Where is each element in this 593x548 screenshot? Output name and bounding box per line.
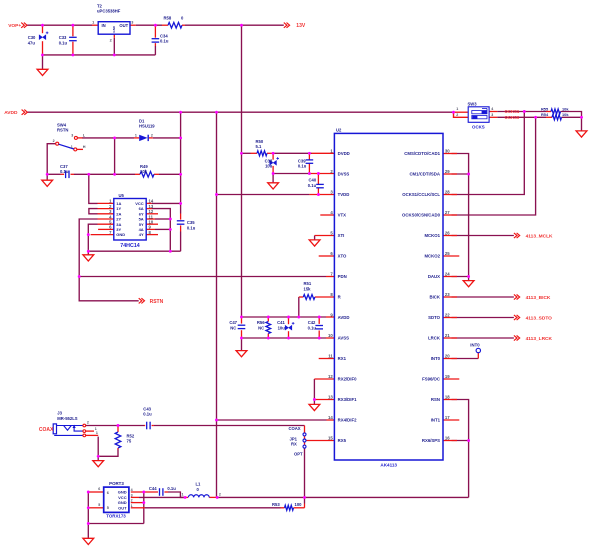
svg-text:26: 26 — [445, 230, 450, 235]
svg-text:COAX: COAX — [289, 426, 301, 431]
svg-text:U2: U2 — [336, 128, 342, 133]
svg-text:OCKS0: OCKS0 — [505, 115, 520, 120]
svg-text:C38: C38 — [265, 158, 273, 163]
svg-text:2: 2 — [110, 39, 112, 43]
svg-text:1: 1 — [95, 427, 97, 431]
svg-text:10k: 10k — [140, 169, 148, 174]
svg-text:INT1: INT1 — [431, 418, 441, 423]
svg-text:47u: 47u — [28, 40, 36, 45]
svg-text:AK4113: AK4113 — [380, 463, 397, 468]
svg-text:IN: IN — [102, 23, 106, 28]
svg-text:28: 28 — [445, 189, 450, 194]
svg-text:C39: C39 — [298, 158, 306, 163]
svg-text:4113_LRCK: 4113_LRCK — [526, 336, 553, 342]
svg-text:4113_BICK: 4113_BICK — [526, 295, 551, 301]
svg-text:22: 22 — [445, 312, 450, 317]
svg-text:RX5: RX5 — [338, 438, 347, 443]
svg-text:0.1u: 0.1u — [308, 183, 317, 188]
svg-text:4113_SDTO: 4113_SDTO — [526, 316, 553, 322]
svg-text:RX2/DIF0: RX2/DIF0 — [338, 377, 357, 382]
svg-text:C40: C40 — [309, 178, 317, 183]
svg-text:0.1u: 0.1u — [60, 169, 69, 174]
svg-text:6: 6 — [107, 491, 109, 495]
svg-text:3: 3 — [131, 20, 133, 24]
svg-text:10: 10 — [328, 333, 333, 338]
svg-text:R58: R58 — [164, 15, 172, 20]
svg-text:4Y: 4Y — [139, 232, 144, 237]
svg-text:AVDD: AVDD — [4, 110, 18, 116]
svg-text:RX1: RX1 — [338, 356, 347, 361]
svg-text:SDTO: SDTO — [428, 315, 441, 320]
svg-text:L: L — [83, 134, 86, 138]
svg-text:20: 20 — [445, 353, 450, 358]
svg-text:10u: 10u — [265, 164, 273, 169]
svg-text:1: 1 — [330, 148, 333, 153]
svg-text:RX: RX — [291, 442, 297, 447]
svg-text:8: 8 — [330, 292, 333, 297]
svg-text:R56: R56 — [257, 320, 265, 325]
svg-text:HSU119: HSU119 — [139, 124, 155, 129]
svg-text:R50: R50 — [256, 139, 264, 144]
svg-text:CMS/CDTO/CAD1: CMS/CDTO/CAD1 — [404, 151, 440, 156]
svg-text:27: 27 — [445, 210, 450, 215]
svg-text:0: 0 — [181, 15, 184, 20]
svg-text:1: 1 — [96, 431, 98, 435]
svg-text:C44: C44 — [149, 486, 157, 491]
svg-text:0.1u: 0.1u — [298, 164, 307, 169]
svg-text:C47: C47 — [229, 320, 237, 325]
svg-text:2: 2 — [53, 139, 55, 143]
svg-text:GND: GND — [118, 490, 127, 495]
svg-text:24: 24 — [445, 271, 450, 276]
svg-text:0.1u: 0.1u — [187, 225, 196, 230]
svg-text:0.1u: 0.1u — [143, 412, 152, 417]
svg-text:15: 15 — [328, 435, 333, 440]
svg-text:TVDD: TVDD — [338, 192, 350, 197]
svg-text:TORX173: TORX173 — [106, 513, 126, 518]
svg-text:BICK: BICK — [429, 295, 440, 300]
svg-text:74HC14: 74HC14 — [120, 243, 139, 249]
svg-text:13V: 13V — [296, 23, 306, 29]
svg-text:DVSS: DVSS — [338, 172, 350, 177]
svg-text:COAX: COAX — [39, 427, 54, 433]
svg-text:2: 2 — [219, 493, 221, 497]
svg-text:XTI: XTI — [338, 233, 345, 238]
svg-text:OCKS0/CSN/CAD0: OCKS0/CSN/CAD0 — [402, 213, 441, 218]
svg-text:18: 18 — [445, 394, 450, 399]
svg-text:R55: R55 — [541, 106, 549, 111]
svg-text:RSTN: RSTN — [150, 299, 164, 305]
svg-text:5.1: 5.1 — [256, 144, 262, 149]
svg-text:PORT3: PORT3 — [109, 481, 124, 486]
svg-text:10k: 10k — [562, 106, 569, 111]
svg-text:15k: 15k — [304, 286, 312, 291]
svg-text:6: 6 — [98, 487, 100, 491]
svg-text:6: 6 — [330, 251, 333, 256]
svg-text:C41: C41 — [277, 320, 285, 325]
svg-text:3: 3 — [131, 494, 133, 498]
svg-text:13: 13 — [328, 394, 333, 399]
svg-text:GND: GND — [116, 232, 125, 237]
svg-text:4: 4 — [491, 107, 493, 111]
svg-text:RX6/SPS: RX6/SPS — [422, 438, 440, 443]
svg-text:5: 5 — [107, 506, 109, 510]
svg-text:OUT: OUT — [119, 23, 128, 28]
svg-text:12: 12 — [328, 374, 333, 379]
svg-text:16: 16 — [445, 435, 450, 440]
svg-text:OCKS: OCKS — [472, 124, 485, 129]
svg-text:1: 1 — [71, 145, 73, 149]
svg-text:NC: NC — [230, 325, 236, 330]
svg-text:4113_MCLK: 4113_MCLK — [526, 234, 553, 240]
svg-text:XTO: XTO — [338, 254, 347, 259]
svg-text:23: 23 — [445, 292, 450, 297]
svg-text:VTX: VTX — [338, 213, 346, 218]
svg-text:OPT: OPT — [294, 452, 303, 457]
svg-text:30: 30 — [445, 148, 450, 153]
svg-text:CM1/CDTI/SDA: CM1/CDTI/SDA — [409, 172, 440, 177]
svg-text:0.1u: 0.1u — [167, 486, 176, 491]
svg-text:25: 25 — [445, 251, 450, 256]
svg-text:21: 21 — [445, 333, 450, 338]
svg-text:5: 5 — [98, 503, 100, 507]
svg-text:4: 4 — [131, 488, 133, 492]
svg-text:RX4/DIF2: RX4/DIF2 — [338, 418, 357, 423]
svg-text:2: 2 — [131, 499, 133, 503]
svg-text:4: 4 — [330, 210, 333, 215]
svg-text:0.1u: 0.1u — [160, 39, 169, 44]
svg-text:LRCK: LRCK — [428, 336, 441, 341]
svg-text:1: 1 — [182, 493, 184, 497]
svg-text:OCKS1/CCLK/SCL: OCKS1/CCLK/SCL — [402, 192, 440, 197]
svg-text:1: 1 — [131, 504, 133, 508]
svg-text:29: 29 — [445, 169, 450, 174]
svg-text:AVDD: AVDD — [338, 315, 350, 320]
svg-text:0.1u: 0.1u — [59, 40, 68, 45]
svg-text:17: 17 — [445, 415, 450, 420]
svg-text:AVSS: AVSS — [338, 336, 350, 341]
svg-text:PDN: PDN — [338, 274, 347, 279]
svg-text:OUT: OUT — [118, 505, 127, 510]
svg-text:VOP+: VOP+ — [8, 23, 21, 29]
svg-text:14: 14 — [328, 415, 333, 420]
svg-text:R54: R54 — [541, 112, 549, 117]
svg-text:DAUX: DAUX — [428, 274, 440, 279]
svg-text:5: 5 — [330, 230, 333, 235]
svg-text:NC: NC — [258, 325, 264, 330]
svg-text:MR-552LS: MR-552LS — [57, 416, 77, 421]
svg-text:1: 1 — [456, 107, 458, 111]
svg-text:SW3: SW3 — [468, 101, 478, 106]
svg-text:C42: C42 — [308, 320, 316, 325]
svg-text:0: 0 — [197, 487, 200, 492]
svg-text:0.1u: 0.1u — [308, 325, 317, 330]
svg-text:75: 75 — [127, 439, 132, 444]
svg-text:19: 19 — [445, 374, 450, 379]
svg-text:INT0: INT0 — [470, 342, 480, 347]
svg-text:1: 1 — [135, 134, 137, 138]
svg-text:10k: 10k — [562, 112, 569, 117]
svg-text:RSN: RSN — [431, 397, 440, 402]
svg-text:3: 3 — [330, 189, 333, 194]
svg-text:MCKO1: MCKO1 — [424, 233, 440, 238]
svg-text:3: 3 — [491, 113, 493, 117]
svg-text:GND: GND — [112, 25, 116, 33]
svg-text:FS96/OC: FS96/OC — [422, 377, 440, 382]
svg-text:2: 2 — [151, 134, 153, 138]
svg-text:MCKO2: MCKO2 — [424, 254, 440, 259]
svg-text:R53: R53 — [272, 502, 280, 507]
svg-text:RSTN: RSTN — [57, 128, 68, 133]
svg-text:3: 3 — [71, 133, 73, 137]
svg-text:OCKS1: OCKS1 — [505, 109, 520, 114]
svg-text:11: 11 — [328, 353, 333, 358]
svg-text:2: 2 — [456, 113, 458, 117]
svg-text:INT0: INT0 — [431, 356, 441, 361]
svg-text:7: 7 — [330, 271, 333, 276]
svg-text:100: 100 — [295, 502, 303, 507]
svg-text:10u: 10u — [278, 325, 286, 330]
svg-text:uPC3538HF: uPC3538HF — [97, 9, 121, 14]
svg-text:RX3/DIF1: RX3/DIF1 — [338, 397, 357, 402]
svg-text:R51: R51 — [304, 281, 312, 286]
svg-text:U5: U5 — [119, 193, 125, 198]
svg-text:2: 2 — [87, 421, 89, 425]
svg-text:H: H — [83, 145, 86, 149]
svg-text:1: 1 — [92, 20, 94, 24]
svg-text:DVDD: DVDD — [338, 151, 350, 156]
